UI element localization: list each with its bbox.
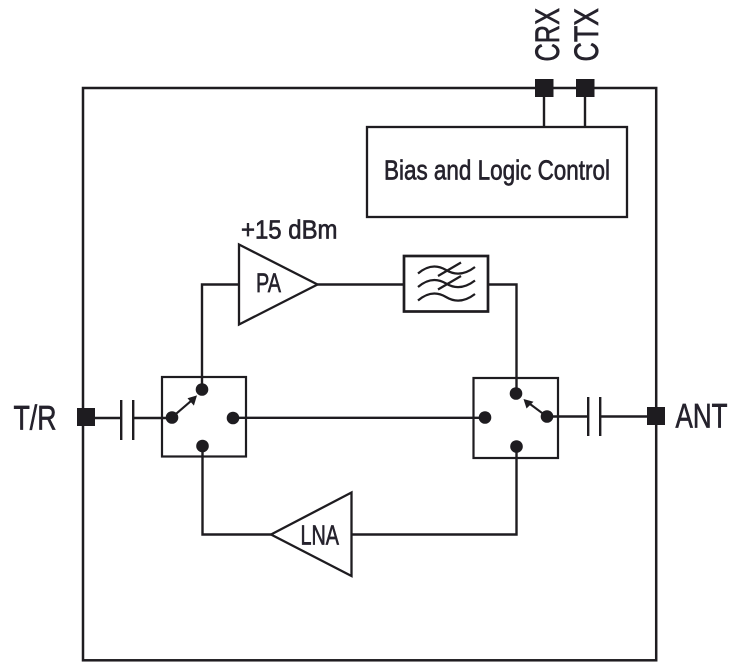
wire CRX pad to bias box xyxy=(543,96,545,128)
filter FL1 box xyxy=(404,256,488,312)
switch SW2 pole dot left xyxy=(479,411,492,424)
svg-text:ANT: ANT xyxy=(676,398,728,436)
svg-text:T/R: T/R xyxy=(14,400,57,438)
switch SW2 arrowhead xyxy=(524,399,534,409)
wire SW2 to capacitor C2 xyxy=(547,415,587,417)
capacitor C2 plate right xyxy=(599,397,601,436)
switch SW2 pole dot top xyxy=(510,387,523,400)
wire SW1 TX port up to PA input xyxy=(202,285,240,390)
switch SW1 pole dot right xyxy=(227,412,240,425)
switch SW2 box xyxy=(474,378,559,458)
capacitor C1 plate right xyxy=(132,400,134,440)
filter FL1 wave 3 xyxy=(418,293,475,300)
svg-text:PA: PA xyxy=(256,268,281,298)
pad CRX xyxy=(535,79,554,97)
filter FL1 wave 1 xyxy=(418,266,475,273)
switch SW2 throw arrow xyxy=(530,404,544,414)
wire SW1 RX port down to LNA output xyxy=(203,446,272,535)
switch SW1 pole dot bottom xyxy=(196,440,209,453)
amplifier LNA triangle xyxy=(271,493,352,577)
filter FL1 slash 2 xyxy=(438,276,461,290)
switch SW1 throw arrow xyxy=(176,401,192,415)
amplifier PA triangle xyxy=(239,245,318,325)
pad ANT xyxy=(647,407,665,425)
filter FL1 slash 1 xyxy=(438,263,461,277)
svg-text:CTX: CTX xyxy=(568,8,606,62)
switch SW1 pole dot top xyxy=(196,383,209,396)
svg-text:Bias and Logic Control: Bias and Logic Control xyxy=(384,155,610,186)
pad CTX xyxy=(576,79,595,97)
svg-text:CRX: CRX xyxy=(529,8,567,62)
switch SW2 pole dot right (common) xyxy=(541,410,554,423)
wire LNA input to SW2 RX port xyxy=(352,447,517,535)
switch SW1 arrowhead xyxy=(188,395,198,405)
capacitor C1 plate left xyxy=(120,400,122,440)
wire filter FL1 to SW2 TX port xyxy=(488,285,517,394)
wire SW1 common to SW2 common (T/R path) xyxy=(233,417,485,419)
wire CTX pad to bias box xyxy=(584,96,586,128)
wire T/R pad to capacitor C1 xyxy=(94,417,120,419)
capacitor C2 plate left xyxy=(587,397,589,436)
svg-text:+15 dBm: +15 dBm xyxy=(241,217,338,245)
wire capacitor C1 to switch SW1 xyxy=(134,417,172,419)
wire PA output to filter FL1 xyxy=(318,283,406,285)
pad T/R xyxy=(77,408,95,426)
switch SW1 pole dot left (common) xyxy=(166,411,179,424)
svg-text:LNA: LNA xyxy=(301,520,340,551)
chip outline box xyxy=(83,88,656,660)
switch SW2 pole dot bottom xyxy=(510,440,523,453)
wire capacitor C2 to ANT pad xyxy=(601,415,648,417)
switch SW1 box xyxy=(162,377,246,457)
bias and logic control box U3 xyxy=(367,127,627,217)
filter FL1 wave 2 xyxy=(418,280,475,287)
